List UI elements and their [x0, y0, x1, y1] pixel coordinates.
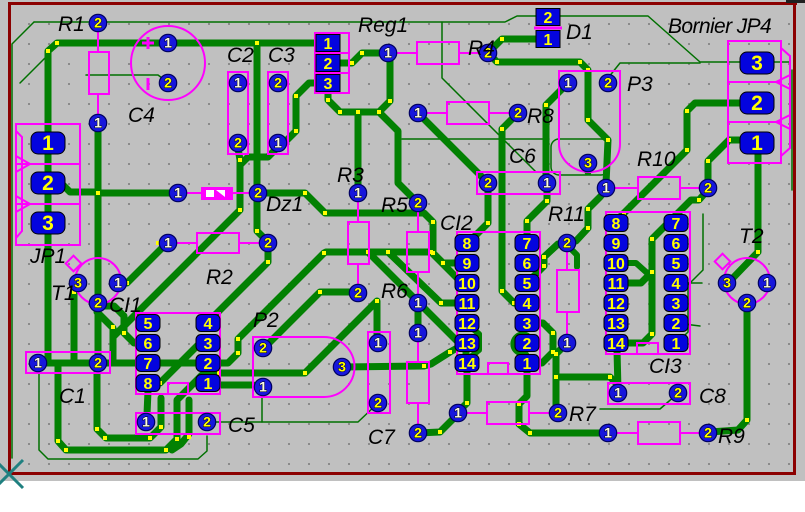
svg-text:R2: R2: [206, 266, 233, 289]
svg-text:C6: C6: [509, 145, 536, 168]
svg-text:Reg1: Reg1: [358, 14, 408, 37]
svg-text:R6: R6: [381, 280, 408, 303]
svg-text:6: 6: [144, 336, 153, 353]
svg-text:2: 2: [274, 75, 282, 91]
svg-text:2: 2: [674, 385, 682, 401]
svg-text:2: 2: [254, 185, 262, 201]
svg-text:9: 9: [463, 256, 472, 273]
svg-text:2: 2: [94, 295, 102, 311]
svg-text:1: 1: [602, 180, 610, 196]
svg-text:C5: C5: [228, 414, 255, 437]
svg-text:2: 2: [259, 340, 267, 356]
svg-text:1: 1: [142, 414, 150, 430]
svg-text:3: 3: [324, 76, 333, 93]
svg-text:2: 2: [544, 10, 553, 27]
svg-text:1: 1: [114, 275, 122, 291]
svg-text:4: 4: [204, 316, 213, 333]
svg-text:1: 1: [384, 45, 392, 61]
svg-text:7: 7: [672, 216, 681, 233]
svg-text:13: 13: [607, 316, 625, 333]
svg-text:1: 1: [259, 379, 267, 395]
svg-text:2: 2: [751, 92, 763, 115]
svg-text:R3: R3: [337, 164, 364, 187]
svg-text:7: 7: [144, 356, 153, 373]
svg-text:1: 1: [324, 36, 333, 53]
svg-text:10: 10: [458, 276, 476, 293]
svg-text:5: 5: [523, 276, 532, 293]
svg-text:2: 2: [604, 75, 612, 91]
svg-text:Bornier JP4: Bornier JP4: [668, 15, 771, 38]
svg-text:7: 7: [523, 236, 532, 253]
svg-text:Dz1: Dz1: [266, 193, 303, 216]
svg-text:2: 2: [164, 75, 172, 91]
svg-text:3: 3: [338, 359, 346, 375]
svg-text:1: 1: [604, 425, 612, 441]
svg-text:2: 2: [672, 316, 681, 333]
svg-text:12: 12: [458, 316, 476, 333]
svg-text:1: 1: [204, 376, 213, 393]
svg-text:1: 1: [614, 385, 622, 401]
svg-text:14: 14: [607, 336, 625, 353]
svg-text:2: 2: [94, 15, 102, 31]
svg-text:1: 1: [42, 132, 54, 155]
svg-text:8: 8: [144, 376, 153, 393]
svg-text:1: 1: [751, 132, 763, 155]
svg-text:R9: R9: [718, 425, 745, 448]
svg-text:3: 3: [723, 275, 731, 291]
svg-text:5: 5: [672, 256, 681, 273]
svg-text:11: 11: [608, 276, 625, 293]
svg-text:1: 1: [164, 235, 172, 251]
svg-text:2: 2: [704, 180, 712, 196]
svg-text:2: 2: [514, 105, 522, 121]
svg-text:CI2: CI2: [440, 212, 473, 235]
svg-text:R10: R10: [637, 148, 676, 171]
svg-text:2: 2: [484, 175, 492, 191]
svg-text:JP1: JP1: [29, 245, 66, 268]
svg-text:2: 2: [743, 295, 751, 311]
svg-text:2: 2: [523, 336, 532, 353]
svg-text:C3: C3: [268, 44, 295, 67]
svg-text:12: 12: [607, 296, 625, 313]
svg-text:2: 2: [204, 356, 213, 373]
svg-text:5: 5: [144, 316, 153, 333]
svg-text:T1: T1: [51, 282, 76, 305]
svg-text:4: 4: [523, 296, 532, 313]
svg-text:3: 3: [204, 336, 213, 353]
svg-text:14: 14: [458, 356, 476, 373]
svg-text:1: 1: [234, 75, 242, 91]
svg-text:1: 1: [164, 35, 172, 51]
svg-text:8: 8: [612, 216, 621, 233]
svg-text:CI3: CI3: [649, 355, 682, 378]
svg-text:2: 2: [94, 355, 102, 371]
svg-text:1: 1: [414, 295, 422, 311]
svg-text:CI1: CI1: [109, 294, 142, 317]
svg-text:1: 1: [672, 336, 681, 353]
svg-text:1: 1: [763, 275, 771, 291]
svg-text:8: 8: [463, 236, 472, 253]
svg-text:2: 2: [42, 172, 54, 195]
svg-text:9: 9: [612, 236, 621, 253]
svg-text:C7: C7: [368, 426, 396, 449]
svg-text:1: 1: [274, 135, 282, 151]
svg-text:6: 6: [523, 256, 532, 273]
svg-text:2: 2: [324, 56, 333, 73]
svg-text:R11: R11: [548, 203, 585, 226]
svg-text:R5: R5: [381, 194, 408, 217]
svg-text:P3: P3: [627, 73, 653, 96]
svg-text:3: 3: [584, 155, 592, 171]
svg-text:11: 11: [459, 296, 476, 313]
svg-text:2: 2: [354, 285, 362, 301]
svg-text:3: 3: [672, 296, 681, 313]
svg-text:1: 1: [34, 355, 42, 371]
svg-text:2: 2: [264, 235, 272, 251]
svg-text:3: 3: [42, 212, 54, 235]
svg-text:1: 1: [544, 32, 553, 49]
svg-text:1: 1: [564, 75, 572, 91]
svg-text:1: 1: [174, 185, 182, 201]
svg-text:1: 1: [454, 405, 462, 421]
svg-text:4: 4: [672, 276, 681, 293]
svg-text:R4: R4: [468, 37, 495, 60]
svg-text:C4: C4: [128, 104, 155, 127]
svg-text:C2: C2: [227, 44, 254, 67]
svg-text:1: 1: [414, 105, 422, 121]
svg-text:2: 2: [414, 195, 422, 211]
svg-text:2: 2: [234, 135, 242, 151]
svg-text:2: 2: [554, 405, 562, 421]
svg-text:2: 2: [563, 235, 571, 251]
svg-text:2: 2: [414, 425, 422, 441]
svg-text:P2: P2: [253, 309, 279, 332]
svg-text:R1: R1: [58, 13, 85, 36]
svg-text:10: 10: [607, 256, 625, 273]
svg-text:6: 6: [672, 236, 681, 253]
svg-text:R8: R8: [527, 105, 554, 128]
svg-text:3: 3: [751, 52, 763, 75]
svg-text:D1: D1: [566, 21, 593, 44]
svg-text:1: 1: [374, 335, 382, 351]
svg-text:T2: T2: [739, 225, 764, 248]
svg-text:1: 1: [523, 356, 532, 373]
svg-text:1: 1: [543, 175, 551, 191]
svg-text:2: 2: [704, 425, 712, 441]
svg-text:2: 2: [203, 414, 211, 430]
svg-text:13: 13: [458, 336, 476, 353]
svg-text:3: 3: [523, 316, 532, 333]
svg-text:1: 1: [94, 115, 102, 131]
svg-text:R7: R7: [569, 403, 597, 426]
svg-text:1: 1: [414, 325, 422, 341]
svg-text:1: 1: [563, 335, 571, 351]
svg-text:2: 2: [374, 395, 382, 411]
svg-text:C1: C1: [59, 385, 86, 408]
svg-text:C8: C8: [699, 385, 726, 408]
